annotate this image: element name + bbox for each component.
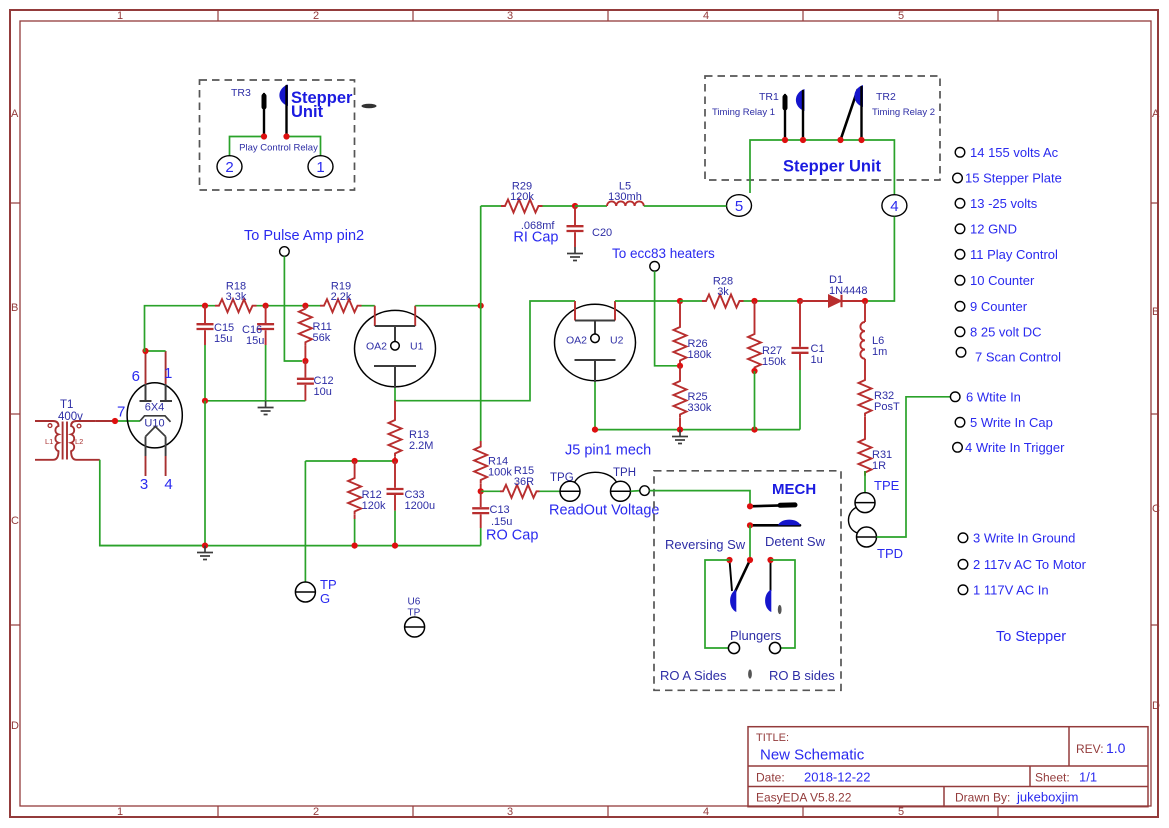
svg-text:U2: U2	[610, 335, 624, 347]
junction dot R27 bottom	[751, 368, 757, 374]
reversing switch lever	[733, 560, 750, 596]
svg-text:D: D	[1152, 700, 1160, 712]
junction dot rail R27	[751, 427, 757, 433]
resistor R12	[354, 461, 356, 475]
svg-text:Play Control Relay: Play Control Relay	[239, 143, 318, 154]
svg-text:36R: 36R	[514, 476, 534, 488]
svg-text:4: 4	[703, 10, 709, 22]
tube U2 anode bar	[575, 320, 615, 322]
svg-text:7 Scan Control: 7 Scan Control	[975, 350, 1061, 365]
junction dot R11 top	[302, 303, 308, 309]
transformer T1 core lines	[62, 422, 64, 460]
tube U10 plate bars	[140, 384, 173, 401]
svg-text:12 GND: 12 GND	[970, 222, 1017, 237]
svg-text:100k: 100k	[488, 467, 512, 479]
svg-text:2: 2	[313, 10, 319, 22]
svg-text:TP: TP	[320, 577, 337, 592]
junction dot C16 top	[263, 303, 269, 309]
svg-text:RO Cap: RO Cap	[486, 528, 538, 544]
reversing switch right contact stem	[770, 560, 772, 591]
svg-text:Unit: Unit	[291, 103, 324, 121]
svg-text:8 25 volt DC: 8 25 volt DC	[970, 325, 1042, 340]
pin 6 Wtite In	[950, 392, 960, 402]
svg-text:1: 1	[164, 365, 172, 382]
tube U2 anode stem	[594, 321, 596, 335]
svg-text:U6: U6	[408, 597, 421, 608]
svg-text:Timing Relay 2: Timing Relay 2	[872, 107, 935, 118]
wire pulse amp line down to R11 bottom	[284, 256, 302, 361]
MECH box dashed outline	[654, 471, 841, 691]
svg-text:150k: 150k	[762, 356, 786, 368]
tube U10 pin 1 lead	[165, 351, 167, 384]
frame tick marks right	[1151, 203, 1158, 625]
wire riser x480.7 from R29 down to R14	[480, 206, 482, 441]
wire port 4 down to D1 rail	[865, 217, 894, 302]
wire R29 to C20 junction	[543, 205, 576, 207]
pin 11 Play Control	[955, 250, 965, 260]
svg-text:Sheet:: Sheet:	[1035, 771, 1070, 785]
resistor R28	[702, 295, 744, 308]
stepper unit box 1 dashed outline	[200, 80, 355, 190]
resistor R32	[864, 359, 866, 377]
diode D1 anode wire	[800, 300, 829, 302]
svg-text:1R: 1R	[872, 460, 886, 472]
svg-text:10u: 10u	[314, 386, 332, 398]
capacitor C1	[792, 301, 809, 370]
junction dot bottom rail x205	[202, 543, 208, 549]
wire riser to TP G	[304, 461, 306, 582]
wire left riser pin6 to top rail	[145, 306, 216, 351]
svg-text:5: 5	[735, 198, 743, 215]
svg-text:2.2k: 2.2k	[331, 291, 352, 303]
tube U2 top left lead	[574, 301, 576, 321]
svg-text:ReadOut Voltage: ReadOut Voltage	[549, 503, 659, 519]
svg-text:Stepper Unit: Stepper Unit	[783, 158, 882, 176]
reversing switch left blue contact	[730, 590, 736, 613]
junction dot detent top	[747, 503, 753, 509]
tube U2 center electrode circle	[591, 334, 600, 343]
decorative small ellipse near box	[362, 104, 377, 109]
wire relay commons to ports 5 and 4	[750, 140, 894, 194]
svg-text:3.3k: 3.3k	[226, 291, 247, 303]
test point TPG circle	[560, 481, 580, 501]
relay TR1 blue contact crescent	[796, 89, 805, 111]
svg-text:2.2M: 2.2M	[409, 440, 433, 452]
inductor L5	[607, 201, 644, 206]
junction dot bottom rail R12	[352, 543, 358, 549]
resistor R14	[480, 441, 482, 444]
reversing switch right blue contact	[765, 590, 771, 613]
right side pin list	[950, 145, 1086, 598]
svg-text:REV:: REV:	[1076, 742, 1104, 756]
resistor R26	[679, 301, 681, 324]
wire C16 to lower rail	[265, 345, 267, 401]
wire R29 left segment	[481, 205, 501, 207]
test point U6 TP circle	[405, 617, 425, 637]
wire detent to reversing common	[749, 525, 751, 560]
wire reversing right to plunger B	[771, 560, 796, 648]
svg-text:4: 4	[164, 476, 172, 493]
svg-text:L2: L2	[75, 437, 83, 446]
svg-text:5: 5	[898, 10, 904, 22]
tube U2 cathode bar	[575, 359, 616, 361]
svg-text:PosT: PosT	[874, 401, 900, 413]
pin 14 155 volts Ac	[955, 148, 965, 158]
resistor R15	[500, 485, 540, 498]
pin 4 Write In Trigger	[953, 443, 963, 453]
junction dot R26 top	[677, 298, 683, 304]
svg-text:TPE: TPE	[874, 478, 900, 493]
svg-text:1u: 1u	[811, 354, 823, 366]
relay TR2 slanted lever bar	[841, 90, 858, 140]
svg-text:TPG: TPG	[550, 472, 574, 484]
svg-text:G: G	[320, 591, 330, 606]
svg-text:A: A	[11, 108, 19, 120]
svg-text:4 Write In Trigger: 4 Write In Trigger	[965, 440, 1065, 455]
frame tick marks bottom	[218, 806, 998, 817]
svg-text:11 Play Control: 11 Play Control	[970, 247, 1058, 262]
resistor R19	[320, 299, 362, 312]
tube U2 top right lead	[614, 301, 616, 321]
junction dot detent lower	[747, 522, 753, 528]
svg-text:B: B	[1152, 306, 1159, 318]
svg-text:Date:: Date:	[756, 771, 785, 785]
junction dot bottom rail C33	[392, 543, 398, 549]
relay TR3 pin bar 1	[263, 94, 265, 136]
junction dot rail R25	[677, 427, 683, 433]
junction dot rail U2 cathode	[592, 427, 598, 433]
svg-text:New Schematic: New Schematic	[760, 747, 865, 764]
small plunger pin center	[748, 669, 752, 678]
plunger A circle	[728, 642, 739, 653]
svg-text:Reversing Sw: Reversing Sw	[665, 537, 746, 552]
svg-text:120k: 120k	[510, 191, 534, 203]
svg-text:TPH: TPH	[613, 467, 636, 479]
wire R19 to U1 top left	[362, 305, 375, 307]
pin 15 Stepper Plate	[953, 173, 963, 183]
pin 13 -25 volts	[955, 199, 965, 209]
pin 7 Scan Control	[956, 348, 966, 358]
svg-text:4: 4	[890, 198, 898, 215]
frame zone numbers bottom	[117, 806, 904, 818]
junction dot reversing common	[747, 557, 753, 563]
ground symbol bottom rail	[197, 546, 213, 560]
junction dot R12 top	[352, 458, 358, 464]
svg-text:1: 1	[117, 806, 123, 818]
wire TPH to mech port circle	[631, 490, 640, 493]
wire U2 bottom rail	[595, 429, 800, 431]
junction dot TR1 pin1	[782, 137, 788, 143]
detent switch blue contact dome	[778, 520, 801, 526]
svg-text:B: B	[11, 302, 18, 314]
wire R18 to R19	[257, 305, 321, 307]
relay TR1 pin bar 2	[802, 91, 804, 140]
svg-text:3: 3	[140, 476, 148, 493]
svg-text:1: 1	[316, 159, 324, 176]
tube U1 center electrode circle	[391, 342, 400, 351]
svg-text:jukeboxjim: jukeboxjim	[1016, 790, 1078, 805]
svg-text:3 Write In Ground: 3 Write In Ground	[973, 531, 1075, 546]
svg-text:3k: 3k	[717, 286, 729, 298]
svg-text:1/1: 1/1	[1079, 770, 1097, 785]
relay TR3 blue contact crescent	[279, 85, 288, 107]
transformer T1 polarity dot right	[77, 424, 81, 428]
svg-text:1.0: 1.0	[1106, 740, 1126, 756]
junction dot C15 top	[202, 303, 208, 309]
svg-text:56k: 56k	[313, 332, 331, 344]
resistor R18	[215, 299, 257, 312]
svg-text:EasyEDA V5.8.22: EasyEDA V5.8.22	[756, 791, 852, 805]
junction dot TR3 pin1	[261, 133, 267, 139]
wire U1 right lead to vertical riser	[415, 305, 481, 307]
diode D1 cathode wire	[842, 300, 866, 302]
svg-text:Plungers: Plungers	[730, 628, 782, 643]
mech port circle	[640, 486, 650, 496]
plunger B circle	[769, 642, 780, 653]
capacitor C16	[257, 306, 274, 345]
junction dot C1 top	[797, 298, 803, 304]
capacitor C20	[567, 206, 584, 247]
svg-text:OA2: OA2	[366, 341, 387, 353]
inductor L6	[864, 301, 866, 322]
svg-text:TPD: TPD	[877, 546, 903, 561]
port circle 5	[727, 195, 752, 217]
arc cable between TPE and TPD	[848, 508, 857, 534]
wire C15 to lower rail	[204, 345, 206, 401]
svg-text:T1: T1	[60, 399, 73, 411]
svg-text:2: 2	[225, 159, 233, 176]
wire TPD to port 6 Wtite In	[877, 397, 951, 537]
title block outline	[748, 727, 1148, 807]
test point TPD circle	[857, 527, 877, 547]
tube U10 pin 4 lead	[165, 437, 167, 457]
wire TR3 pin1 to port 2	[230, 137, 265, 156]
frame tick marks left	[10, 203, 20, 625]
resistor R29	[501, 200, 543, 213]
svg-text:15 Stepper Plate: 15 Stepper Plate	[965, 171, 1062, 186]
wire C20 to L5	[575, 205, 607, 207]
wire ecc83 down to R26 R25 junction	[655, 271, 677, 366]
svg-text:RO A Sides: RO A Sides	[660, 668, 727, 683]
svg-text:7: 7	[117, 404, 125, 421]
tube U10 envelope ellipse	[127, 383, 182, 448]
svg-text:OA2: OA2	[566, 335, 587, 347]
ground symbol under R25	[672, 430, 688, 444]
svg-text:1m: 1m	[872, 346, 887, 358]
svg-text:1: 1	[117, 10, 123, 22]
svg-text:5: 5	[898, 806, 904, 818]
tube U1 anode bar	[375, 325, 415, 327]
junction dot pin 7	[112, 418, 118, 424]
svg-text:L1: L1	[45, 437, 53, 446]
pin 9 Counter	[955, 302, 965, 312]
svg-text:1N4448: 1N4448	[829, 285, 868, 297]
wire R11 to C12 junction	[304, 345, 306, 361]
wire U2 cathode to bottom rail	[594, 382, 596, 430]
tube U10 heater filament	[146, 427, 166, 437]
ground symbol under C16	[258, 401, 274, 415]
junction dot U1 rail riser	[478, 303, 484, 309]
svg-text:TR1: TR1	[759, 91, 779, 103]
wire R28 to R27 to C1	[744, 300, 801, 302]
stepper unit box 2 dashed outline	[705, 76, 940, 180]
wire R27 bottom to rail	[754, 371, 756, 430]
svg-text:A: A	[1152, 108, 1160, 120]
small plunger pin right	[778, 605, 782, 614]
junction dot TR1 pin2	[800, 137, 806, 143]
svg-text:1 117V AC In: 1 117V AC In	[973, 583, 1049, 598]
svg-text:C20: C20	[592, 227, 612, 239]
svg-text:2: 2	[313, 806, 319, 818]
frame tick marks top	[218, 10, 998, 21]
tube U1 cathode bar	[374, 365, 416, 367]
svg-text:TR3: TR3	[231, 87, 251, 99]
svg-text:Timing Relay 1: Timing Relay 1	[712, 107, 775, 118]
frame zone letters left	[11, 108, 19, 732]
svg-text:U1: U1	[410, 341, 424, 353]
svg-text:6 Wtite In: 6 Wtite In	[966, 390, 1021, 405]
wire x205 down to bottom rail	[204, 401, 206, 546]
frame zone numbers top	[117, 10, 904, 22]
wire reversing left to plunger A	[705, 560, 730, 648]
wire mech port to detent switch	[649, 491, 750, 507]
wire lower capacitor rail	[205, 400, 305, 402]
relay TR3 pin bar 2	[285, 86, 287, 136]
wire R15 to TPG	[540, 490, 561, 492]
wire TR3 pin2 to port 1	[287, 137, 321, 156]
svg-text:C: C	[1152, 503, 1160, 515]
diode D1	[829, 295, 842, 307]
tube U1 envelope circle	[355, 310, 436, 386]
svg-text:2018-12-22: 2018-12-22	[804, 770, 871, 785]
tube U10 grid line pin 7	[140, 416, 171, 422]
svg-text:TITLE:: TITLE:	[756, 732, 789, 744]
relay TR2 pin bar 2	[860, 87, 862, 140]
svg-text:1200u: 1200u	[405, 500, 436, 512]
tube U1 anode stem	[394, 326, 396, 342]
wire U2 anode right to R28 rail	[615, 300, 680, 302]
svg-text:9 Counter: 9 Counter	[970, 299, 1028, 314]
svg-text:14 155 volts Ac: 14 155 volts Ac	[970, 145, 1059, 160]
junction dot TR2 pin1	[837, 137, 843, 143]
svg-text:D: D	[11, 720, 19, 732]
junction dot R14 bottom	[478, 488, 484, 494]
pin 12 GND	[955, 224, 965, 234]
svg-text:3: 3	[507, 10, 513, 22]
junction dot pin 6	[142, 348, 148, 354]
net flag circle To Pulse Amp pin2	[280, 247, 290, 257]
svg-text:Detent Sw: Detent Sw	[765, 534, 826, 549]
svg-text:Drawn By:: Drawn By:	[955, 791, 1010, 805]
tube U1 top left lead	[374, 306, 376, 326]
svg-text:2 117v AC To Motor: 2 117v AC To Motor	[973, 557, 1087, 572]
svg-text:J5 pin1 mech: J5 pin1 mech	[565, 443, 651, 459]
port circle 4	[882, 195, 907, 217]
wire L5 to port 5	[644, 205, 727, 207]
junction dot R11 bottom	[302, 358, 308, 364]
detent switch lower blade	[750, 524, 800, 527]
pin 8 25 volt DC	[955, 327, 965, 337]
test point TPH circle	[611, 481, 631, 501]
pin 2 117v AC To Motor	[958, 560, 968, 570]
junction dot reversing left	[726, 557, 732, 563]
wire rail R12 C33	[305, 460, 395, 462]
net flag circle ecc83	[650, 262, 660, 272]
resistor R25	[679, 366, 681, 378]
port circle 2	[217, 156, 242, 178]
relay TR2 blue contact crescent	[854, 85, 863, 107]
svg-text:C: C	[11, 515, 19, 527]
test point TP G circle	[295, 582, 315, 602]
junction dot R26 bottom	[677, 363, 683, 369]
wire R28 left segment	[680, 300, 702, 302]
junction dot L6 top	[862, 298, 868, 304]
svg-text:RO B sides: RO B sides	[769, 668, 835, 683]
pin 10 Counter	[955, 276, 965, 286]
test point TPE circle	[855, 493, 875, 513]
svg-text:180k: 180k	[688, 349, 712, 361]
reversing switch left contact stem	[730, 560, 733, 591]
pin 5 Write In Cap	[955, 418, 965, 428]
wire T1 secondary to tube pin 7	[96, 420, 115, 422]
transformer T1 primary winding L1	[35, 421, 59, 460]
pin 3 Write In Ground	[958, 533, 968, 543]
junction dot lower rail left	[202, 398, 208, 404]
svg-text:330k: 330k	[688, 402, 712, 414]
svg-text:6X4: 6X4	[145, 402, 165, 414]
svg-text:13 -25 volts: 13 -25 volts	[970, 196, 1038, 211]
svg-text:130mh: 130mh	[608, 191, 642, 203]
svg-text:120k: 120k	[362, 500, 386, 512]
svg-text:MECH: MECH	[772, 481, 816, 498]
junction dot R27 top	[751, 298, 757, 304]
wire T1 bottom to ground rail	[100, 460, 205, 546]
resistor R27	[754, 301, 756, 331]
svg-text:15u: 15u	[246, 335, 264, 347]
svg-text:3: 3	[507, 806, 513, 818]
wire bottom ground rail	[100, 545, 481, 547]
svg-text:5 Write In Cap: 5 Write In Cap	[970, 415, 1053, 430]
resistor R31	[864, 417, 866, 436]
tube U2 cathode stem	[594, 360, 596, 382]
port circle 1	[308, 156, 333, 178]
wire R14 to R15	[481, 490, 500, 492]
wire U1 cathode down and right to U2	[395, 301, 575, 401]
svg-text:TP: TP	[408, 608, 421, 619]
wire pin6 jog to pin1	[146, 350, 166, 352]
svg-text:TR2: TR2	[876, 91, 896, 103]
junction dot C20 top	[572, 203, 578, 209]
tube U10 pin 3 lead	[145, 437, 147, 457]
svg-text:To Pulse Amp pin2: To Pulse Amp pin2	[244, 228, 364, 244]
tube U2 envelope circle	[555, 304, 636, 380]
pin 1 117V AC In	[958, 585, 968, 595]
junction dot R13 bottom	[392, 458, 398, 464]
resistor R11	[299, 306, 312, 346]
capacitor C12	[297, 361, 314, 401]
tube U10 pin 6 lead	[145, 351, 147, 384]
svg-text:.15u: .15u	[491, 516, 512, 528]
capacitor C13	[472, 491, 489, 528]
detent switch top blade	[750, 505, 795, 506]
transformer T1 polarity dot left	[48, 424, 52, 428]
junction dot TR2 pin2	[858, 137, 864, 143]
svg-text:6: 6	[132, 368, 140, 385]
capacitor C33	[387, 461, 404, 511]
transformer T1 secondary winding L2	[71, 421, 100, 460]
tube U1 top right lead	[414, 306, 416, 326]
junction dot TR3 pin2	[283, 133, 289, 139]
